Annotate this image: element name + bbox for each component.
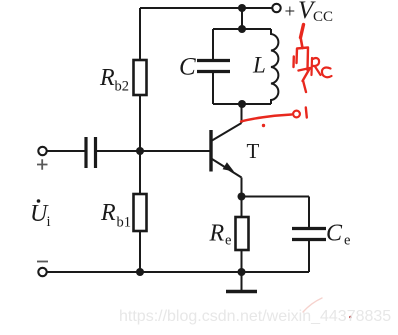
svg-text:R: R (100, 200, 116, 226)
capacitor C (197, 29, 230, 104)
label Ui (30, 199, 51, 230)
wire below Re (241, 250, 243, 272)
annotation red Rc box left stroke (292, 57, 295, 68)
wire bottom rail (48, 271, 310, 273)
wire left branch lower (139, 231, 141, 272)
label plus input (37, 159, 48, 170)
terminal +Vcc (272, 4, 280, 12)
label minus input (37, 261, 48, 263)
resistor Rb2 (134, 60, 147, 95)
wire emitter node to Ce (242, 196, 310, 198)
wire top rail (140, 7, 272, 9)
annotation red dot (262, 124, 265, 127)
capacitor coupling (86, 137, 96, 168)
transistor T (211, 123, 242, 178)
annotation red tick (306, 108, 307, 118)
svg-text:C: C (179, 54, 196, 81)
svg-text:R: R (99, 65, 115, 91)
terminal input plus (38, 147, 46, 155)
wire top rail to tank (241, 8, 243, 29)
capacitor Ce (292, 197, 326, 273)
junction emitter node (238, 193, 246, 201)
annotation red text R (312, 58, 321, 75)
wire collector (241, 104, 243, 123)
annotation red Rc box (297, 48, 309, 71)
svg-text:CC: CC (313, 9, 333, 25)
svg-text:R: R (209, 221, 225, 247)
annotation red Rc lead (301, 37, 303, 48)
label Rb1 (100, 200, 131, 231)
annotation red Rc lead bottom 7-shape (299, 68, 311, 92)
wire to Re (241, 197, 243, 218)
annotation red wire from collector (241, 115, 292, 122)
svg-text:b1: b1 (117, 215, 132, 231)
svg-text:L: L (252, 53, 266, 78)
junction bottom left (136, 268, 144, 276)
annotation red Rc lead top (301, 25, 304, 38)
annotation dark red dot (349, 316, 352, 319)
svg-text:e: e (344, 233, 350, 249)
wire base (97, 150, 210, 152)
annotation red text c (322, 67, 332, 77)
resistor Rb1 (134, 194, 147, 231)
junction tank bottom (238, 100, 246, 108)
junction tank top (238, 25, 246, 33)
inductor L (271, 29, 278, 104)
ground (226, 272, 257, 292)
label Ce (326, 221, 350, 249)
junction bottom emitter (238, 268, 246, 276)
resistor Re (236, 217, 249, 250)
svg-text:T: T (247, 139, 260, 163)
wire emitter (241, 178, 243, 197)
junction bias node (136, 147, 144, 155)
label Rb2 (99, 65, 129, 95)
svg-text:i: i (47, 214, 51, 230)
svg-text:+: + (285, 2, 296, 23)
annotation faint pink stroke (303, 298, 322, 312)
svg-text:https://blog.csdn.net/weixin_4: https://blog.csdn.net/weixin_44378835 (119, 308, 391, 325)
annotation red loop end (293, 111, 300, 118)
wire tank bottom (213, 103, 271, 105)
wire input (48, 150, 86, 152)
wire left branch upper (139, 8, 141, 60)
label +Vcc (285, 0, 334, 25)
svg-text:e: e (225, 233, 231, 249)
label Re (209, 221, 232, 249)
svg-text:C: C (326, 221, 343, 247)
svg-text:b2: b2 (115, 79, 130, 95)
wire left branch middle (139, 95, 141, 194)
terminal input minus (38, 268, 46, 276)
wire tank top (213, 28, 271, 30)
junction top rail (238, 4, 246, 12)
